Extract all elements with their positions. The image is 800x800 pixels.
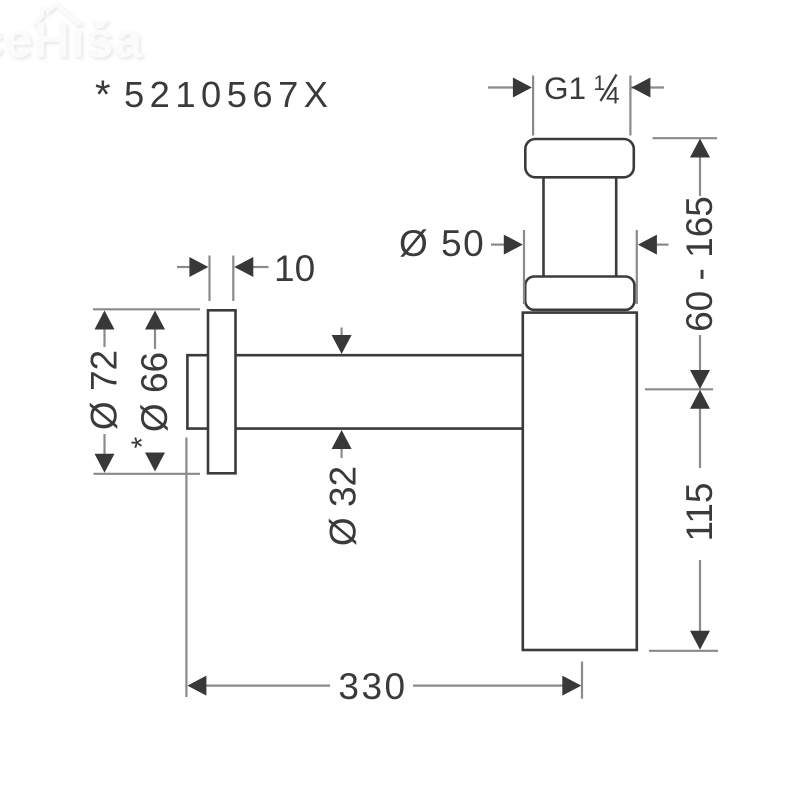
dia 72 top arrowhead: [95, 311, 115, 330]
dia 32 upper arrow stem: [341, 328, 343, 341]
middle compression nut: [525, 277, 634, 310]
dia 50 right arrowhead: [638, 235, 657, 255]
svg-text:G1: G1: [544, 70, 586, 106]
dia 72 dim line upper segment: [103, 328, 105, 347]
330 dim left extension line: [185, 438, 187, 698]
115 bottom arrowhead: [690, 631, 710, 650]
svg-text:*: *: [95, 73, 111, 117]
dia 72/66 bottom extension line: [94, 473, 201, 475]
watermark eHisa logo shadow text: [0, 6, 145, 70]
330 dim right extension line: [581, 662, 583, 699]
dia 50 right extension line: [636, 230, 638, 304]
dia 32 bottom arrowhead: [332, 430, 352, 449]
dia 50 left arrowhead: [504, 235, 523, 255]
dia 72 bottom arrowhead: [95, 454, 115, 473]
330 left arrowhead: [187, 676, 206, 696]
svg-text:330: 330: [338, 666, 407, 707]
330 dim line left segment: [206, 684, 330, 686]
svg-text:5210567X: 5210567X: [124, 74, 334, 115]
60-165 dim line lower segment: [699, 335, 701, 371]
wall flange escutcheon: [208, 310, 236, 473]
10 dim left arrow tail: [177, 266, 190, 268]
dia 32 top arrowhead: [332, 335, 352, 354]
dia 32 lower arrow stem: [341, 449, 343, 458]
svg-text:1: 1: [594, 72, 606, 95]
inlet pipe left wall: [542, 177, 545, 276]
330 right arrowhead: [562, 676, 581, 696]
dia 66 top arrowhead: [145, 311, 165, 330]
watermark eHisa logo face text with house roof: [0, 4, 143, 68]
G1 1/4 left arrow tail: [488, 86, 513, 88]
svg-text:Ø 50: Ø 50: [399, 223, 485, 264]
dia 72/66 top extension line: [93, 308, 200, 310]
60-165 bottom arrowhead: [690, 370, 710, 389]
115 dim line lower segment: [699, 560, 701, 631]
svg-text:4: 4: [606, 83, 620, 110]
fraction 1/4 slash: [601, 75, 617, 102]
top union nut G1 1/4: [525, 139, 634, 177]
svg-text:10: 10: [274, 248, 315, 289]
pipe axis tick line: [645, 388, 713, 390]
body bottom tick line: [649, 650, 718, 652]
10 dim left extension line: [208, 256, 210, 302]
10 dim right extension line: [232, 256, 234, 302]
dia 50 left arrow tail: [491, 244, 504, 246]
dia 72 dim line lower segment: [103, 434, 105, 454]
svg-text:Ø 72: Ø 72: [84, 350, 125, 430]
115 dim line upper segment: [699, 408, 701, 469]
330 dim line right segment: [413, 684, 563, 686]
10 dim left arrowhead: [189, 257, 208, 277]
10 dim right arrow tail: [253, 266, 269, 268]
60-165 top reference line: [653, 137, 718, 139]
115 top arrowhead: [690, 390, 710, 409]
G1 1/4 left extension line: [532, 76, 534, 136]
dia 50 right arrow tail: [657, 244, 669, 246]
60-165 dim line upper segment: [699, 157, 701, 196]
inlet pipe right wall: [615, 177, 618, 276]
dia 66 bottom arrowhead: [145, 453, 165, 472]
svg-text:60 - 165: 60 - 165: [679, 196, 720, 332]
60-165 top arrowhead: [690, 139, 710, 158]
10 dim right arrowhead: [234, 257, 253, 277]
horizontal waste pipe outline: [187, 355, 522, 428]
G1 1/4 right arrow tail: [631, 86, 664, 88]
G1 1/4 right arrowhead: [631, 78, 650, 98]
svg-text:*: *: [126, 437, 159, 449]
G1 1/4 right extension line: [629, 76, 631, 136]
svg-text:115: 115: [679, 483, 720, 542]
svg-text:Ø 32: Ø 32: [323, 466, 364, 546]
dia 66 dim line lower segment: [154, 453, 156, 454]
dia 50 left extension line: [523, 230, 525, 304]
trap cup body: [523, 313, 637, 650]
G1 1/4 left arrowhead: [513, 78, 532, 98]
svg-text:Ø 66: Ø 66: [134, 352, 175, 432]
dia 66 dim line upper segment: [154, 328, 156, 349]
